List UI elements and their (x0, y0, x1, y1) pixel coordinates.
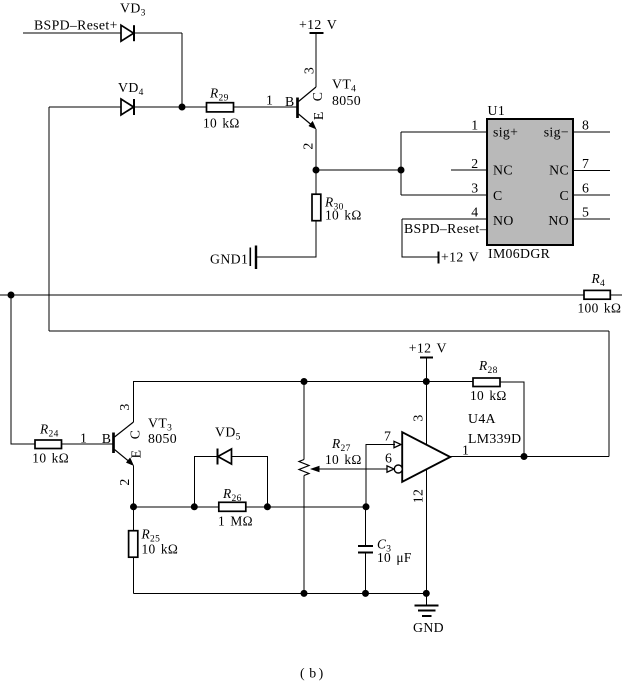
svg-text:C: C (559, 188, 569, 203)
wire R25 down to bottom rail (133, 557, 135, 593)
wire VT4 emitter down to node (315, 129, 317, 170)
wire pin 1 stub (401, 131, 487, 133)
svg-text:1: 1 (80, 431, 87, 446)
node output branch dot (521, 453, 528, 460)
node pin7 dot (363, 503, 370, 510)
svg-text:10 kΩ: 10 kΩ (470, 388, 507, 403)
wire emitter node to relay branch (316, 169, 401, 171)
wire pin 2 stub (NC) (451, 169, 487, 171)
svg-text:+12 V: +12 V (299, 17, 337, 32)
svg-text:NC: NC (549, 163, 569, 178)
svg-text:10 kΩ: 10 kΩ (142, 542, 179, 557)
wire left net down to R24 (11, 295, 35, 444)
wire VD5 left branch (194, 457, 217, 507)
wire VT3 collector up and right (134, 382, 474, 423)
svg-text:B: B (102, 431, 112, 446)
svg-text:GND1: GND1 (210, 252, 248, 267)
svg-text:10 kΩ: 10 kΩ (325, 208, 362, 223)
node VD5 right dot (264, 503, 271, 510)
svg-text:4: 4 (471, 205, 478, 220)
wire pin 3 stub (401, 194, 487, 196)
wire R30 down to GND1 (257, 221, 316, 257)
svg-text:8050: 8050 (332, 93, 361, 108)
wire pin 3 into opamp top (425, 382, 427, 445)
wire pin 7 stub (573, 170, 610, 172)
potentiometer R27 (299, 382, 362, 594)
wire feedback horizontal (49, 330, 609, 332)
svg-text:B: B (285, 94, 295, 109)
svg-text:10 kΩ: 10 kΩ (203, 116, 240, 131)
wire pin 7 branch (366, 445, 395, 507)
ground GND1 (210, 246, 256, 270)
svg-text:1: 1 (266, 93, 273, 108)
node pot bottom dot (301, 590, 308, 597)
power +12V top (299, 17, 337, 33)
wire emitter net horizontal (134, 506, 366, 508)
svg-text:3: 3 (411, 414, 426, 421)
wire R24 to VT3 base, pin 1 (62, 443, 113, 445)
resistor R24 (32, 422, 69, 466)
wire pin 8 stub (573, 131, 610, 133)
wire pin 4 stub (402, 218, 487, 220)
wire feedback into VD4 anode (49, 106, 121, 108)
svg-text:E: E (311, 111, 326, 120)
resistor R28 (470, 358, 507, 403)
svg-text:C: C (493, 188, 503, 203)
svg-text:U1: U1 (488, 103, 506, 118)
svg-text:(b): (b) (300, 666, 324, 682)
wire pin 6 to pot wiper (311, 468, 387, 470)
node C3 bottom dot (362, 590, 369, 597)
svg-text:5: 5 (582, 205, 589, 220)
transistor VT3 (114, 403, 178, 485)
svg-text:+12 V: +12 V (409, 341, 447, 356)
svg-text:3: 3 (471, 181, 478, 196)
node emitter junction dot (313, 167, 320, 174)
op-amp U4A LM339D (384, 411, 521, 503)
power +12V relay coil (439, 250, 480, 265)
svg-text:7: 7 (582, 156, 589, 171)
node VT3 emitter dot (130, 503, 137, 510)
svg-text:NO: NO (548, 213, 569, 228)
wire VD3 cathode to corner (134, 32, 182, 34)
wire VT4 collector up to +12V (315, 34, 317, 88)
wire BSPD-Reset+ to VD3 anode (23, 32, 121, 34)
svg-text:2: 2 (301, 142, 316, 149)
svg-text:1 MΩ: 1 MΩ (218, 514, 253, 529)
wire R28 to output branch (500, 382, 524, 457)
wire feedback right vertical to comparator output (608, 331, 610, 457)
wire bottom rail (134, 592, 427, 594)
wire R29 to VT4 base, pin 1 (234, 106, 297, 108)
diode VD5 (215, 425, 241, 465)
wire VD4 cathode to R29 (134, 106, 206, 108)
relay U1 (487, 103, 573, 261)
svg-text:NC: NC (493, 163, 513, 178)
pin 6 input symbol (387, 466, 394, 472)
wire pin 6 stub (573, 194, 610, 196)
wire long horizontal net right of R4 (610, 294, 622, 296)
pin 7 input symbol (394, 441, 401, 447)
svg-text:10 kΩ: 10 kΩ (325, 452, 362, 467)
svg-text:6: 6 (385, 451, 392, 466)
svg-text:BSPD–Reset+: BSPD–Reset+ (34, 18, 118, 33)
wire pin 5 stub (573, 218, 610, 220)
svg-text:6: 6 (582, 181, 589, 196)
svg-text:C: C (128, 430, 143, 440)
wire comparator output (451, 456, 610, 458)
svg-text:7: 7 (384, 429, 391, 444)
svg-text:1: 1 (471, 118, 478, 133)
svg-text:8: 8 (582, 118, 589, 133)
svg-text:GND: GND (413, 620, 444, 635)
resistor R4 (578, 271, 622, 316)
wire VD5 right branch (232, 457, 268, 507)
svg-text:C: C (310, 92, 325, 102)
wire pin 12 out of opamp bottom (425, 469, 427, 593)
svg-text:BSPD–Reset–: BSPD–Reset– (404, 221, 487, 236)
diode VD4 (118, 80, 144, 115)
svg-text:LM339D: LM339D (468, 431, 521, 446)
node +12V branch dot (423, 378, 430, 385)
resistor R25 (129, 527, 179, 558)
wire corner down to VD4 output node (181, 33, 183, 107)
wire VT3 emitter down (133, 466, 135, 532)
capacitor C3 (358, 507, 412, 594)
svg-text:2: 2 (117, 478, 132, 485)
svg-text:12: 12 (411, 489, 426, 504)
wire feedback vertical from VD4 (48, 107, 50, 331)
node junction dot VD3/VD4 (179, 104, 186, 111)
svg-text:3: 3 (117, 403, 132, 410)
diode VD3 (120, 1, 146, 42)
svg-text:sig+: sig+ (493, 125, 518, 140)
resistor R26 (218, 486, 253, 529)
node VD5 left dot (191, 503, 198, 510)
transistor VT4 (298, 67, 362, 150)
svg-text:10 kΩ: 10 kΩ (32, 451, 69, 466)
wire relay pins 1-3 vertical (400, 132, 402, 195)
node relay branch dot (398, 167, 405, 174)
wire emitter node to R30 (315, 170, 317, 194)
node GND dot (423, 590, 430, 597)
wire long horizontal net left (0, 294, 584, 296)
svg-text:1: 1 (462, 443, 469, 458)
svg-text:2: 2 (471, 156, 478, 171)
power +12V comparator (409, 341, 447, 382)
resistor R29 (203, 86, 240, 131)
ground GND (413, 593, 444, 635)
svg-text:3: 3 (302, 67, 317, 74)
wire pin4 down and right to +12V (402, 219, 438, 257)
resistor R30 (312, 194, 362, 222)
svg-text:8050: 8050 (148, 431, 177, 446)
node pot branch dot (301, 378, 308, 385)
svg-text:IM06DGR: IM06DGR (488, 246, 551, 261)
svg-text:U4A: U4A (468, 411, 496, 426)
svg-text:10 μF: 10 μF (377, 550, 412, 565)
svg-text:NO: NO (493, 213, 514, 228)
svg-text:100 kΩ: 100 kΩ (578, 301, 622, 316)
svg-text:+12 V: +12 V (441, 250, 479, 265)
node dot left net (8, 292, 15, 299)
svg-text:sig−: sig− (544, 125, 569, 140)
svg-text:E: E (129, 450, 144, 459)
